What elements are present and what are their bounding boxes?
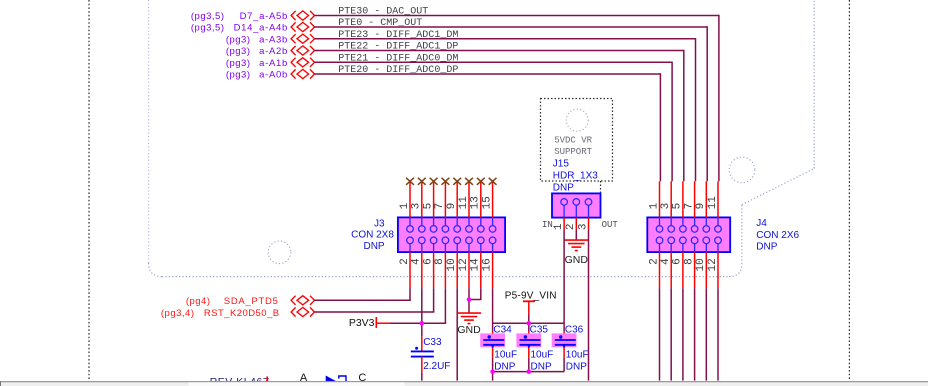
svg-text:PTE30 - DAC_OUT: PTE30 - DAC_OUT	[338, 7, 428, 18]
J3 pin 5 (top, NC)	[433, 181, 435, 217]
svg-text:RST_K20D50_B: RST_K20D50_B	[204, 308, 280, 319]
wire net PTE21 - DIFF_ADC0_DM	[315, 61, 673, 63]
svg-text:a-A3b: a-A3b	[259, 34, 288, 45]
J4 pin circle top col2	[668, 226, 675, 233]
J4 pin circle bottom col4	[691, 237, 698, 244]
svg-text:8: 8	[683, 258, 695, 265]
svg-text:9: 9	[446, 203, 458, 210]
J4 pin circle top col1	[656, 226, 663, 233]
svg-text:10: 10	[446, 258, 458, 271]
svg-text:PTE22 - DIFF_ADC1_DP: PTE22 - DIFF_ADC1_DP	[338, 42, 458, 53]
PCB outline left edge	[148, 0, 150, 263]
J3 pin circle bottom col1	[407, 237, 414, 244]
svg-text:1: 1	[648, 202, 660, 209]
J3 pin 4 (bottom)	[421, 252, 423, 288]
PCB outline bottom-left corner	[149, 263, 162, 277]
svg-text:IN: IN	[542, 220, 553, 230]
5VDC VR support dotted box	[541, 99, 613, 182]
svg-text:a-A1b: a-A1b	[259, 58, 288, 69]
svg-text:(pg3): (pg3)	[226, 70, 251, 81]
svg-text:16: 16	[481, 258, 493, 271]
connector J3 body	[398, 217, 505, 252]
junction dot 5	[527, 369, 532, 374]
svg-text:PTE21 - DIFF_ADC0_DM: PTE21 - DIFF_ADC0_DM	[338, 54, 458, 65]
svg-text:CON 2X6: CON 2X6	[756, 230, 799, 241]
svg-text:a-A2b: a-A2b	[259, 46, 288, 57]
J3 pin circle top col6	[466, 226, 473, 233]
J3 pin 7 (top, NC)	[444, 181, 446, 217]
mounting hole right	[729, 157, 755, 183]
off-page connector RST_K20D50_B	[291, 307, 296, 316]
svg-text:6: 6	[672, 258, 684, 265]
J3 pin circle bottom col3	[430, 237, 437, 244]
J4 pin 4 (bottom)	[670, 252, 672, 288]
mounting hole in 5VDC box	[566, 109, 588, 131]
junction dot 1	[420, 321, 425, 326]
J4 pin 8 (bottom)	[694, 252, 696, 288]
J3 pin circle top col3	[430, 226, 437, 233]
J3 pin circle bottom col6	[466, 237, 473, 244]
letter C (cut off)	[358, 372, 366, 384]
svg-text:5: 5	[672, 203, 684, 210]
svg-text:3: 3	[411, 203, 423, 210]
svg-text:PTE23 - DIFF_ADC1_DM: PTE23 - DIFF_ADC1_DM	[338, 30, 458, 41]
svg-text:DNP: DNP	[363, 241, 384, 252]
wire C33 to bottom	[421, 357, 423, 373]
svg-text:OUT: OUT	[602, 220, 619, 230]
J4 pin 10 (bottom)	[705, 252, 707, 288]
capacitor C33	[411, 350, 434, 352]
wire J3 pin6 to RST_K20D50_B	[433, 288, 435, 312]
svg-text:3: 3	[660, 203, 672, 210]
wire C34 bottom	[492, 348, 494, 358]
svg-text:C35: C35	[530, 325, 549, 336]
svg-text:J4: J4	[756, 218, 767, 229]
off-page connector a-A0b	[291, 69, 296, 78]
svg-text:P5-9V_VIN: P5-9V_VIN	[505, 291, 557, 302]
svg-text:10uF: 10uF	[531, 350, 554, 361]
J3 pin circle bottom col4	[442, 237, 449, 244]
letter A (cut off)	[300, 372, 308, 384]
svg-text:5VDC VR: 5VDC VR	[554, 136, 592, 146]
svg-text:(pg3): (pg3)	[226, 58, 251, 69]
svg-text:D7_a-A5b: D7_a-A5b	[240, 11, 288, 22]
off-page connector D14_a-A4b	[291, 22, 296, 31]
J3 pin circle top col4	[442, 226, 449, 233]
J3 pin 3 (top, NC)	[421, 181, 423, 217]
J3 pin 16 (bottom)	[492, 252, 494, 288]
J15 pin 1	[563, 218, 565, 230]
J3 pin circle bottom col2	[419, 237, 426, 244]
junction dot 2	[467, 297, 472, 302]
J3 pin 14 (bottom)	[480, 252, 482, 288]
wire J4 pin 2 to bottom	[659, 288, 661, 380]
wire net PTE0 - CMP_OUT	[315, 26, 708, 28]
PCB outline bottom-right corner	[729, 264, 742, 277]
svg-text:(pg3): (pg3)	[226, 46, 251, 57]
J3 pin 12 (bottom)	[468, 252, 470, 288]
J3 pin circle top col7	[478, 226, 485, 233]
wire net PTE22 - DIFF_ADC1_DP	[315, 50, 684, 52]
blue bracket marker	[339, 376, 346, 381]
svg-text:2: 2	[399, 258, 411, 265]
svg-text:15: 15	[481, 196, 493, 209]
connector J15 body	[552, 193, 601, 217]
wire C35 top	[528, 323, 530, 331]
J4 pin 12 (bottom)	[717, 252, 719, 288]
wire J3 pin16 to C34	[492, 288, 494, 331]
svg-text:13: 13	[470, 196, 482, 209]
blue triangle marker	[326, 376, 337, 382]
wire net PTE23 - DIFF_ADC1_DM	[315, 38, 696, 40]
J4 pin circle top col4	[691, 226, 698, 233]
svg-text:12: 12	[707, 258, 719, 271]
off-page connector D7_a-A5b	[291, 11, 296, 20]
wire P5-9V_VIN stub	[528, 315, 530, 324]
J4 pin 9 (top)	[705, 181, 707, 217]
svg-text:4: 4	[411, 258, 423, 265]
svg-text:PTE20 - DIFF_ADC0_DP: PTE20 - DIFF_ADC0_DP	[338, 65, 458, 76]
J4 pin 3 (top)	[670, 181, 672, 217]
svg-text:12: 12	[458, 258, 470, 271]
svg-text:C33: C33	[423, 337, 442, 348]
J3 pin 15 (top, NC)	[492, 181, 494, 217]
J4 pin circle top col3	[680, 226, 687, 233]
capacitor C34	[480, 333, 505, 347]
J3 pin 6 (bottom)	[433, 252, 435, 288]
wire J4 pin 10 to bottom	[705, 288, 707, 380]
wire top bus C34-C36	[493, 322, 564, 324]
svg-text:6: 6	[422, 258, 434, 265]
J3 pin circle bottom col5	[454, 237, 461, 244]
J3 pin circle top col1	[407, 226, 414, 233]
J4 pin 1 (top)	[659, 181, 661, 217]
wire C35 bottom	[528, 348, 530, 358]
revision text (cut off)	[210, 376, 270, 386]
svg-text:11: 11	[707, 196, 719, 210]
wire net PTE30 - DAC_OUT	[315, 15, 719, 17]
svg-text:1: 1	[399, 202, 411, 209]
wire J3 pin10 to bottom	[456, 288, 458, 380]
J3 pin circle top col8	[489, 226, 496, 233]
svg-text:4: 4	[660, 258, 672, 265]
J3 pin 1 (top, NC)	[409, 181, 411, 217]
J3 pin 10 (bottom)	[456, 252, 458, 288]
svg-text:D14_a-A4b: D14_a-A4b	[234, 23, 288, 34]
J4 pin circle top col6	[715, 226, 722, 233]
PCB outline diagonal notch	[742, 169, 814, 205]
svg-text:10: 10	[695, 258, 707, 271]
bottom gray band	[0, 381, 928, 386]
svg-text:a-A0b: a-A0b	[259, 70, 288, 81]
wire J3 pin4 to C33	[421, 288, 423, 337]
svg-text:7: 7	[434, 203, 446, 210]
wire J4 pin 12 to bottom	[717, 288, 719, 380]
svg-text:DNP: DNP	[566, 362, 587, 373]
svg-text:(pg3,5): (pg3,5)	[191, 23, 225, 34]
J4 pin 5 (top)	[682, 181, 684, 217]
J15 pin circle 3	[585, 199, 592, 206]
svg-text:(pg3,4): (pg3,4)	[161, 308, 195, 319]
svg-text:C34: C34	[493, 325, 512, 336]
off-page connector a-A3b	[291, 34, 296, 43]
wire J15 pin2 to ground	[575, 230, 577, 240]
off-page connector SDA_PTD5	[291, 296, 296, 305]
wire J15 pin1 to C36	[563, 230, 565, 331]
J4 pin 7 (top)	[694, 181, 696, 217]
J3 pin circle top col5	[454, 226, 461, 233]
svg-text:2.2UF: 2.2UF	[423, 361, 450, 372]
svg-text:3: 3	[577, 224, 589, 231]
svg-text:HDR_1X3: HDR_1X3	[553, 170, 598, 181]
svg-text:7: 7	[683, 203, 695, 210]
connector J4 body	[647, 217, 730, 252]
svg-text:GND: GND	[565, 254, 589, 266]
mounting hole left	[268, 241, 291, 264]
svg-text:(pg4): (pg4)	[186, 296, 211, 307]
svg-text:PTE0 - CMP_OUT: PTE0 - CMP_OUT	[338, 18, 422, 29]
wire J4 pin 6 to bottom	[682, 288, 684, 380]
J4 pin circle top col5	[703, 226, 710, 233]
J4 pin circle bottom col5	[703, 237, 710, 244]
PCB outline right edge	[813, 0, 815, 169]
PCB outline bottom edge	[162, 276, 729, 278]
junction dot 4	[490, 369, 495, 374]
wire net PTE20 - DIFF_ADC0_DP	[315, 73, 661, 75]
wire J15 pin3 to bottom	[588, 230, 590, 381]
off-page connector a-A1b	[291, 58, 296, 67]
svg-text:P3V3: P3V3	[349, 317, 375, 329]
svg-text:14: 14	[470, 258, 482, 272]
svg-text:GND: GND	[457, 324, 481, 336]
svg-text:C36: C36	[565, 325, 584, 336]
J4 pin circle bottom col3	[680, 237, 687, 244]
junction dot 3	[527, 321, 532, 326]
svg-text:(pg3,5): (pg3,5)	[191, 11, 225, 22]
J4 pin 11 (top)	[717, 181, 719, 217]
svg-text:DNP: DNP	[756, 242, 777, 253]
svg-text:8: 8	[434, 258, 446, 265]
J4 pin circle bottom col6	[715, 237, 722, 244]
J3 pin 13 (top, NC)	[480, 181, 482, 217]
capacitor C36	[552, 333, 577, 347]
svg-text:11: 11	[458, 196, 470, 210]
J3 pin circle bottom col7	[478, 237, 485, 244]
J4 pin 6 (bottom)	[682, 252, 684, 288]
PCB outline right lower edge	[741, 205, 743, 264]
off-page connector a-A2b	[291, 46, 296, 55]
svg-text:J15: J15	[553, 158, 570, 169]
wire J3 pin12 to ground	[468, 288, 470, 313]
J3 pin 2 (bottom)	[409, 252, 411, 288]
wire C36 bottom	[563, 348, 565, 358]
black dotted construction line right	[848, 0, 850, 381]
J3 pin 9 (top, NC)	[456, 181, 458, 217]
J3 pin 11 (top, NC)	[468, 181, 470, 217]
J4 pin circle bottom col1	[656, 237, 663, 244]
wire bottom bus C34-C36	[493, 371, 564, 373]
svg-text:CON 2X8: CON 2X8	[351, 230, 394, 241]
svg-text:DNP: DNP	[553, 182, 574, 193]
wire J4 pin 8 to bottom	[694, 288, 696, 380]
J4 pin 2 (bottom)	[659, 252, 661, 288]
svg-text:9: 9	[695, 203, 707, 210]
svg-text:1: 1	[553, 223, 565, 230]
J15 pin 2	[575, 218, 577, 230]
ground symbol at J3	[457, 312, 481, 314]
J15 pin 3	[588, 218, 590, 230]
svg-text:J3: J3	[374, 218, 385, 229]
svg-text:5: 5	[422, 203, 434, 210]
black dotted construction line left	[88, 0, 90, 381]
svg-text:2: 2	[648, 258, 660, 265]
svg-text:SUPPORT: SUPPORT	[554, 147, 592, 157]
svg-text:2: 2	[565, 224, 577, 231]
wire J3 pin2 to SDA_PTD5	[409, 288, 411, 300]
J3 pin circle bottom col8	[489, 237, 496, 244]
svg-text:(pg3): (pg3)	[226, 34, 251, 45]
J15 pin circle 2	[573, 199, 580, 206]
ground symbol at J15	[564, 239, 588, 241]
wire J4 pin 4 to bottom	[670, 288, 672, 380]
J4 pin circle bottom col2	[668, 237, 675, 244]
svg-text:SDA_PTD5: SDA_PTD5	[224, 296, 279, 307]
svg-text:10uF: 10uF	[566, 350, 589, 361]
J3 pin 8 (bottom)	[444, 252, 446, 288]
capacitor C35	[516, 333, 541, 347]
J3 pin circle top col2	[419, 226, 426, 233]
wire P3V3 to J3 pin8	[390, 322, 446, 324]
J15 pin circle 1	[561, 199, 568, 206]
svg-text:10uF: 10uF	[494, 350, 517, 361]
wire J3 pin14 to ground junction	[480, 288, 482, 299]
